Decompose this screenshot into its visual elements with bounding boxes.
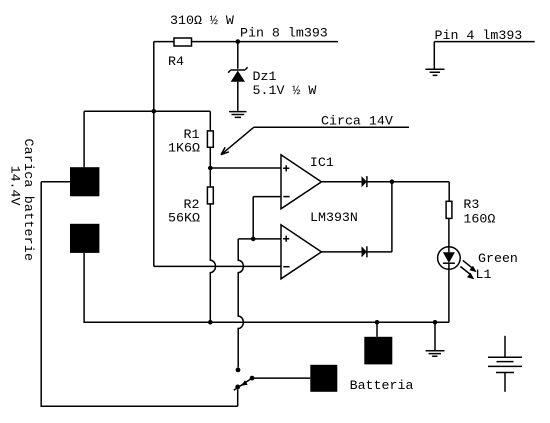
svg-text:56KΩ: 56KΩ — [168, 210, 200, 225]
svg-text:Dz1: Dz1 — [253, 69, 277, 84]
wire left outer bus — [41, 182, 238, 406]
wire D2 output up to node — [367, 182, 392, 252]
svg-text:Circa 14V: Circa 14V — [321, 113, 393, 128]
LED emission arrow 2 — [460, 267, 474, 280]
pin - (lower) — [283, 266, 289, 268]
svg-text:R3: R3 — [463, 197, 479, 212]
battery BT1 symbol — [488, 336, 522, 392]
wire switch to battery terminal — [252, 377, 310, 379]
resistor R1 — [207, 131, 213, 147]
node junction left column / mid rail — [152, 109, 157, 114]
node junction zener/top rail — [236, 39, 241, 44]
diode D1 — [362, 176, 367, 187]
node junction outputs — [390, 179, 395, 184]
wire lower comparator output — [321, 251, 361, 253]
wire Circa 14V leader line with arrow — [221, 127, 409, 155]
wire R2 bottom with hop to bottom bus — [210, 204, 215, 322]
resistor R2 — [207, 187, 213, 204]
wire upper comparator output — [321, 181, 361, 183]
wire top rail left segment — [154, 41, 174, 43]
pin + (lower) — [283, 236, 289, 242]
pin - (upper) — [283, 196, 289, 198]
terminal square (charger -) — [70, 224, 99, 253]
zener diode Dz1 — [228, 67, 248, 111]
wire drop to terminal square 1 — [83, 111, 85, 167]
wire feedback column x=238 with hops — [238, 239, 243, 368]
terminal square (battery sense) — [364, 337, 392, 365]
wire D1 to R3 column — [367, 181, 449, 183]
ground (bottom bus) — [426, 351, 445, 357]
wire ground drop — [434, 322, 436, 350]
wire Pin 4 rail — [434, 42, 534, 69]
diode D2 — [362, 246, 367, 257]
terminal square (charger +) — [70, 167, 99, 196]
svg-text:Pin 4 lm393: Pin 4 lm393 — [435, 28, 523, 43]
wire top rail right segment (Pin 8 net) — [192, 41, 339, 43]
node junction R1/R2 — [208, 166, 213, 171]
node junction x=253 — [251, 237, 256, 242]
svg-text:Batteria: Batteria — [350, 378, 414, 393]
LED emission arrow 1 — [463, 260, 477, 272]
ground (zener) — [229, 112, 246, 118]
wire inverting input line of lower comparator — [154, 265, 281, 267]
resistor R3 — [446, 201, 452, 218]
wire bottom bus — [84, 253, 449, 322]
wire zener top lead — [237, 42, 239, 69]
op-amp U1A (IC1 upper comparator) — [281, 155, 321, 209]
svg-text:310Ω ½ W: 310Ω ½ W — [170, 13, 234, 28]
wire left column from R4 down to lower comparator minus line — [153, 42, 155, 267]
wire R3 column top — [448, 182, 450, 202]
wire drop to sense terminal square — [376, 322, 378, 337]
LED L1 — [438, 247, 461, 270]
svg-text:R4: R4 — [168, 54, 184, 69]
pin + (upper) — [283, 165, 289, 171]
node junction bus/battery sense square — [375, 320, 380, 325]
svg-text:160Ω: 160Ω — [463, 211, 495, 226]
node junction bus/R2 — [208, 320, 213, 325]
wire divider node to upper comparator plus input — [210, 167, 281, 169]
op-amp U1B (lower comparator) — [281, 225, 321, 279]
switch SW1 — [234, 368, 255, 391]
wire mid horizontal rail y=111 — [84, 110, 210, 112]
svg-text:Green: Green — [478, 251, 518, 266]
svg-text:5.1V ½ W: 5.1V ½ W — [253, 83, 317, 98]
wire R3 to LED — [448, 218, 450, 247]
svg-text:L1: L1 — [476, 267, 492, 282]
svg-text:1K6Ω: 1K6Ω — [168, 141, 200, 156]
terminal square (Batteria) — [310, 365, 337, 392]
svg-text:LM393N: LM393N — [310, 210, 358, 225]
ground (Pin 4) — [425, 69, 444, 75]
wire LED to bottom bus — [448, 263, 450, 322]
svg-text:IC1: IC1 — [310, 155, 334, 170]
resistor R4 — [174, 38, 192, 46]
wire terminal square 1 to left bus — [41, 181, 70, 183]
wire upper comparator minus input — [253, 197, 281, 239]
svg-text:14.4V: 14.4V — [8, 166, 23, 206]
node junction bus/ground — [433, 320, 438, 325]
wire node to lower comparator plus input — [238, 238, 281, 240]
svg-text:Pin 8 lm393: Pin 8 lm393 — [240, 26, 328, 41]
wire R1/R2 divider column — [209, 111, 211, 131]
